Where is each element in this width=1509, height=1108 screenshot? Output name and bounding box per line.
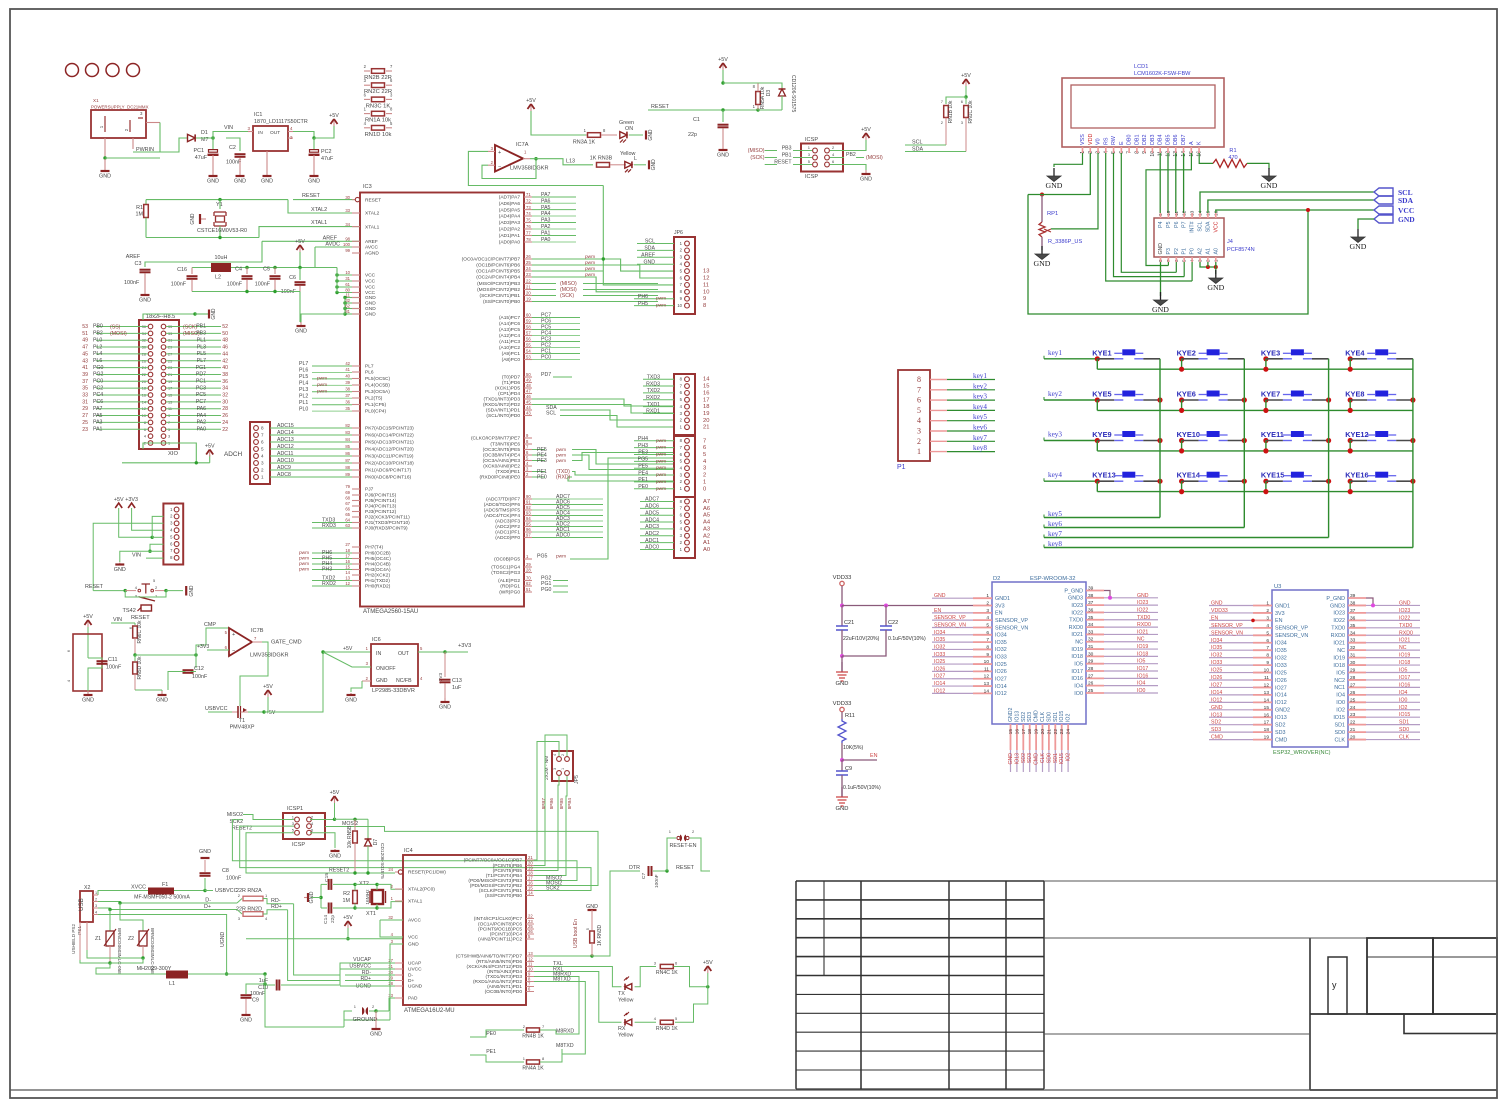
wire RD+ vertical <box>288 910 340 981</box>
svg-text:CLK: CLK <box>1040 752 1046 763</box>
svg-text:IO23: IO23 <box>1399 608 1410 614</box>
connector power header 8pin <box>163 504 183 565</box>
svg-text:10k RN5B: 10k RN5B <box>347 825 353 848</box>
svg-text:A2: A2 <box>703 533 710 539</box>
IC3 pin 84 PK5(ADC13/PCINT21) <box>352 441 360 443</box>
svg-text:key3: key3 <box>1048 431 1062 439</box>
D2 pin 13 IO14 <box>973 685 992 687</box>
IC3 pin 72 (AD6)PA6 <box>524 202 532 204</box>
svg-text:GND: GND <box>207 179 219 185</box>
IC3 pin 63 PJ0(RXD3/PCINT9) <box>352 527 360 529</box>
svg-text:47uF: 47uF <box>321 156 334 162</box>
U3 pin 13 IO14 <box>1253 694 1272 696</box>
svg-text:83: 83 <box>345 430 350 435</box>
svg-text:L13: L13 <box>566 159 575 165</box>
svg-text:40: 40 <box>222 365 228 371</box>
svg-text:IO5: IO5 <box>1399 668 1407 674</box>
IC3 pin 2 (RXD0/PCIN8)PE0 <box>524 476 532 478</box>
svg-text:USBVCC: USBVCC <box>205 706 228 712</box>
U3 pin 3 EN <box>1253 619 1272 621</box>
svg-text:XTAL1: XTAL1 <box>408 899 423 905</box>
svg-text:41: 41 <box>82 365 88 371</box>
wire JPB PE1 <box>634 481 674 483</box>
svg-text:(OC1B/PCINT6)PB6: (OC1B/PCINT6)PB6 <box>476 263 520 269</box>
svg-text:54: 54 <box>526 349 531 354</box>
svg-text:18: 18 <box>1027 729 1033 735</box>
svg-text:51: 51 <box>526 587 531 592</box>
D2 pin 30 IO18 <box>1086 655 1104 657</box>
wire +3V3 to pin 4 <box>132 508 164 530</box>
svg-text:5: 5 <box>1266 630 1269 636</box>
svg-text:27: 27 <box>82 413 88 419</box>
svg-text:89: 89 <box>345 472 350 477</box>
svg-text:8: 8 <box>986 644 989 650</box>
svg-text:Yellow: Yellow <box>618 1033 633 1039</box>
svg-text:CMD: CMD <box>1275 737 1287 743</box>
svg-text:RS: RS <box>1103 137 1109 145</box>
svg-text:NC: NC <box>1399 645 1407 651</box>
svg-text:KYE16: KYE16 <box>1345 471 1368 480</box>
svg-text:GND: GND <box>1152 305 1169 314</box>
svg-text:PB0: PB0 <box>93 324 103 330</box>
svg-text:PB1: PB1 <box>196 324 206 330</box>
svg-text:7: 7 <box>261 433 264 438</box>
svg-text:CMD: CMD <box>1211 735 1223 741</box>
resistor RN5A 10k <box>756 92 761 105</box>
wire KYE10 jog <box>1181 441 1183 451</box>
svg-text:94: 94 <box>526 516 531 521</box>
svg-text:26: 26 <box>222 413 228 419</box>
svg-text:71: 71 <box>526 192 531 197</box>
svg-text:14: 14 <box>703 377 710 383</box>
IC4 pin 7 (AIN0/INT1)PD1 <box>526 986 534 988</box>
wire JPB PG5 <box>634 460 674 462</box>
svg-text:87: 87 <box>345 458 350 463</box>
svg-text:GND: GND <box>1137 593 1149 599</box>
svg-text:IO12: IO12 <box>934 688 945 694</box>
capacitor C22 0.1uF <box>885 606 887 627</box>
svg-text:26: 26 <box>1350 690 1356 696</box>
svg-text:43: 43 <box>526 411 531 416</box>
svg-text:1M: 1M <box>136 212 144 218</box>
IC4 pin 32 AVCC <box>395 919 403 921</box>
svg-text:IO16: IO16 <box>1399 682 1410 688</box>
svg-text:40: 40 <box>345 374 350 379</box>
svg-text:62: 62 <box>345 304 350 309</box>
wires TXD2 RXD2 stubs <box>312 580 352 582</box>
wire XTAL loop bottom <box>146 237 259 239</box>
svg-text:2: 2 <box>261 468 264 473</box>
svg-text:X2: X2 <box>84 885 90 891</box>
filter rail +5V <box>192 267 211 269</box>
IC4 pin 27 UCAP <box>395 962 403 964</box>
wires PH4 PH3 stubs on IC3 left side lower <box>312 552 352 554</box>
IC4 pin 19 (PCINT5)PB5 <box>526 870 534 872</box>
svg-text:100nF: 100nF <box>255 282 271 288</box>
svg-text:PL2: PL2 <box>93 344 102 350</box>
svg-text:CSTCE16M0V53-R0: CSTCE16M0V53-R0 <box>197 228 247 234</box>
svg-text:4: 4 <box>917 416 921 425</box>
push button KYE3 <box>1263 356 1268 361</box>
ground C8 <box>201 857 210 859</box>
svg-text:90: 90 <box>526 494 531 499</box>
wire XIO bottom +5V <box>143 443 196 463</box>
svg-text:+5V: +5V <box>718 57 728 63</box>
svg-text:P7: P7 <box>1182 221 1188 227</box>
svg-text:(XCK1)PD5: (XCK1)PD5 <box>495 386 520 392</box>
U3 pin 29 IO5 <box>1348 672 1366 674</box>
svg-text:A5: A5 <box>703 513 710 519</box>
svg-text:28: 28 <box>526 568 531 573</box>
svg-text:pwm: pwm <box>656 487 666 492</box>
svg-text:PL0: PL0 <box>93 337 102 343</box>
IC3 pin 32 GND <box>352 302 360 304</box>
svg-text:(RXD): (RXD) <box>556 475 571 481</box>
svg-text:XTAL1: XTAL1 <box>311 220 327 226</box>
svg-text:100: 100 <box>343 242 351 247</box>
svg-text:PL3(OC5A): PL3(OC5A) <box>365 389 390 395</box>
svg-text:L1: L1 <box>169 981 175 987</box>
svg-text:73: 73 <box>526 205 531 210</box>
svg-text:PL1: PL1 <box>197 337 206 343</box>
IC3 pin 16 PH4(OC4B) <box>352 563 360 565</box>
IC3 pin 8 (T3/INT6)PE6 <box>524 443 532 445</box>
svg-text:PH1(TXD2): PH1(TXD2) <box>365 578 390 584</box>
svg-text:+5V: +5V <box>861 127 871 133</box>
svg-text:13: 13 <box>984 681 990 687</box>
wires IC4 MISO2 MOSI2 SCK2 <box>534 880 570 882</box>
svg-text:IO22: IO22 <box>1137 607 1148 613</box>
capacitor PC2 47uF <box>313 138 315 150</box>
svg-text:D1: D1 <box>201 130 208 136</box>
IC3 pin 22 (MISO/PCINT3)PB3 <box>524 283 532 285</box>
wire KYE1 jog <box>1096 359 1098 369</box>
svg-text:RD+: RD+ <box>360 976 371 982</box>
svg-text:VDD33: VDD33 <box>833 575 852 581</box>
wire JPA RXD1 <box>643 412 674 414</box>
svg-text:A4: A4 <box>703 520 711 526</box>
wire opamp inputs <box>488 150 495 152</box>
IC3 pin 89 PK0(ADC8/PCINT16) <box>352 476 360 478</box>
svg-text:GND: GND <box>1399 600 1411 606</box>
svg-text:IO17: IO17 <box>1071 669 1083 675</box>
svg-text:PE1: PE1 <box>638 477 648 483</box>
wire KYE12 jog <box>1349 441 1351 451</box>
svg-text:PC5: PC5 <box>196 392 206 398</box>
ground flag <box>1357 229 1359 237</box>
svg-text:A1: A1 <box>1205 248 1211 254</box>
wires J4 SCL SDA VCC to flags <box>1200 192 1374 213</box>
svg-text:RXD2: RXD2 <box>646 395 660 401</box>
svg-text:GND: GND <box>261 179 273 185</box>
push button KYE7 <box>1263 397 1268 402</box>
svg-text:PJ2(XCK3/PCINT11): PJ2(XCK3/PCINT11) <box>365 515 410 521</box>
D2 pin 32 NC <box>1086 641 1104 643</box>
svg-text:IO22: IO22 <box>1333 618 1345 624</box>
svg-text:PL0: PL0 <box>299 406 308 412</box>
U3 pin 32 NC <box>1348 649 1366 651</box>
svg-text:GND: GND <box>365 312 376 318</box>
svg-text:3: 3 <box>95 904 97 908</box>
wire JPA RXD3 <box>643 385 674 387</box>
svg-text:SENSOR_VP: SENSOR_VP <box>1211 623 1243 629</box>
svg-text:P0: P0 <box>1190 248 1196 254</box>
IC3 pin 38 PL3(OC5A) <box>352 391 360 393</box>
push button KYE10 <box>1179 438 1184 443</box>
svg-text:SCL: SCL <box>645 239 655 245</box>
U3 pin 4 SENSOR_VP <box>1253 627 1272 629</box>
svg-text:GND2: GND2 <box>1008 707 1014 722</box>
svg-text:IO14: IO14 <box>1211 690 1222 696</box>
wire XIO left row PL6 <box>96 360 148 362</box>
svg-text:PH7(T4): PH7(T4) <box>365 545 384 551</box>
svg-text:RN1A 10k: RN1A 10k <box>365 118 391 124</box>
IC3 pin 61 VCC <box>352 286 360 288</box>
title block table <box>796 880 1044 882</box>
svg-text:34: 34 <box>1088 622 1094 628</box>
wire KYE14 jog <box>1181 481 1183 491</box>
svg-text:PA7: PA7 <box>93 406 103 412</box>
ground TS42 <box>185 586 187 596</box>
resistor RN1D <box>364 127 370 129</box>
svg-text:19: 19 <box>526 297 531 302</box>
svg-text:PC0: PC0 <box>93 379 103 385</box>
svg-text:IO21: IO21 <box>1137 629 1148 635</box>
svg-text:DB5: DB5 <box>1165 135 1171 146</box>
wires ICSP left <box>765 150 777 152</box>
svg-text:LP2985-33DBVR: LP2985-33DBVR <box>372 688 415 694</box>
svg-text:IO19: IO19 <box>1399 653 1410 659</box>
svg-text:34: 34 <box>1350 630 1356 636</box>
varistor Z2 <box>120 903 143 931</box>
wire XIO left row PA5 <box>96 415 148 417</box>
svg-text:4: 4 <box>95 911 97 915</box>
IC3 pin 29 (TOSC1)PG4 <box>524 566 532 568</box>
svg-text:27: 27 <box>388 958 393 963</box>
svg-text:48: 48 <box>222 338 228 344</box>
svg-text:IO18: IO18 <box>1137 651 1148 657</box>
svg-text:USHIELD PS2: USHIELD PS2 <box>71 924 76 954</box>
push button KYE14 <box>1179 479 1184 484</box>
svg-text:Z1: Z1 <box>95 936 101 942</box>
IC3 pin 80 VCC <box>352 292 360 294</box>
svg-text:D-: D- <box>205 898 211 904</box>
svg-text:35: 35 <box>345 406 350 411</box>
svg-text:18: 18 <box>345 548 350 553</box>
svg-text:IO15: IO15 <box>1059 753 1065 764</box>
IC3 pin 70 (ALE)PG2 <box>524 580 532 582</box>
svg-text:25: 25 <box>82 420 88 426</box>
IC4 pin 26 (PCINT10)PC4 <box>526 933 534 935</box>
svg-text:RN1D 10k: RN1D 10k <box>365 132 392 138</box>
IC3 pin 91 (ADC6/TDO)PF6 <box>524 504 532 506</box>
svg-text:4: 4 <box>553 754 557 756</box>
wire ADCH ADC10 <box>270 462 360 464</box>
svg-text:SCL: SCL <box>546 411 556 417</box>
capacitor C1 22p <box>722 110 724 122</box>
green routing loops icsp1 <box>232 820 577 881</box>
svg-text:(SCL/INT0)PD0: (SCL/INT0)PD0 <box>486 413 520 419</box>
svg-text:IO0: IO0 <box>1336 700 1345 706</box>
svg-text:26: 26 <box>526 254 531 259</box>
wire KYE6 jog <box>1181 400 1183 410</box>
svg-text:C22: C22 <box>888 620 898 626</box>
ground LED L <box>648 160 650 169</box>
svg-text:A: A <box>1189 141 1195 145</box>
svg-text:IC4: IC4 <box>404 848 413 854</box>
svg-text:(SDA/INT1)PD1: (SDA/INT1)PD1 <box>486 408 520 414</box>
svg-text:(SS): (SS) <box>110 324 121 330</box>
svg-text:8: 8 <box>917 375 921 384</box>
wires J4 A2 A1 A0 gnd <box>1200 262 1216 267</box>
svg-text:27: 27 <box>1088 673 1094 679</box>
svg-text:IO19: IO19 <box>1137 644 1148 650</box>
svg-text:26: 26 <box>1088 681 1094 687</box>
svg-text:ON/OFF: ON/OFF <box>376 666 396 672</box>
svg-text:1: 1 <box>1266 601 1269 607</box>
svg-text:CLK: CLK <box>1040 711 1046 722</box>
svg-text:(OC1A/PCINT5)PB5: (OC1A/PCINT5)PB5 <box>476 269 520 275</box>
svg-text:36: 36 <box>1088 607 1094 613</box>
svg-text:SD3: SD3 <box>1027 712 1033 722</box>
ground C9 esp <box>841 787 843 797</box>
svg-text:IO14: IO14 <box>934 681 945 687</box>
D2 pin 5 SENSOR_VN <box>973 626 992 628</box>
D2 pin 16 IO13 <box>1016 724 1018 750</box>
wires USB D- D+ <box>98 902 237 904</box>
wire JPC ADC6 <box>640 507 674 509</box>
svg-text:GND: GND <box>717 153 729 159</box>
svg-text:key1: key1 <box>1048 349 1062 357</box>
svg-text:3: 3 <box>1266 615 1269 621</box>
svg-text:IO34: IO34 <box>1211 638 1222 644</box>
svg-text:PL5(OC5C): PL5(OC5C) <box>365 376 390 382</box>
IC3 pin 43 (SCL/INT0)PD0 <box>524 415 532 417</box>
svg-text:PH3: PH3 <box>322 567 332 573</box>
capacitor C11 100nF <box>87 635 89 658</box>
U3 pin 9 IO33 <box>1253 664 1272 666</box>
svg-text:GND3: GND3 <box>1068 596 1083 602</box>
IC3 pin 3 (TXD0)PE1 <box>524 471 532 473</box>
svg-text:(ALE)PG2: (ALE)PG2 <box>498 578 520 584</box>
svg-text:D-: D- <box>408 973 413 979</box>
svg-text:PH0(RXD2): PH0(RXD2) <box>365 584 391 590</box>
svg-text:38: 38 <box>222 372 228 378</box>
svg-text:PH6(OC2B): PH6(OC2B) <box>365 551 391 557</box>
svg-text:PA4: PA4 <box>197 413 207 419</box>
svg-text:RESET: RESET <box>774 160 792 166</box>
svg-text:37: 37 <box>345 393 350 398</box>
svg-text:key1: key1 <box>973 372 987 380</box>
wire RP1 rail <box>1028 194 1090 196</box>
svg-text:VDD33: VDD33 <box>1211 608 1228 614</box>
svg-text:ADC14: ADC14 <box>277 430 294 436</box>
svg-text:7: 7 <box>1266 645 1269 651</box>
wire LCD VDD <box>1089 153 1091 195</box>
IC3 pin 86 PK3(ADC11/PCINT19) <box>352 455 360 457</box>
svg-text:VCC: VCC <box>365 285 376 291</box>
wire key row 4 <box>1044 480 1097 482</box>
svg-text:13: 13 <box>528 951 533 956</box>
+5V AVCC <box>297 245 304 250</box>
svg-text:IO26: IO26 <box>995 669 1007 675</box>
svg-text:AVDC: AVDC <box>325 242 340 248</box>
svg-text:RXD0: RXD0 <box>1069 625 1083 631</box>
wire key6 row <box>1044 527 1244 529</box>
svg-text:KYE9: KYE9 <box>1092 430 1111 439</box>
wire JP6 PH5 <box>634 305 674 307</box>
svg-text:CD1206-S01575: CD1206-S01575 <box>379 843 385 879</box>
wire flag GND <box>1358 219 1374 229</box>
push button KYE11 <box>1263 438 1268 443</box>
wire AREF <box>262 240 360 242</box>
svg-text:7: 7 <box>986 637 989 643</box>
svg-text:17: 17 <box>1264 720 1270 726</box>
svg-text:(OC3C/INT5)PE5: (OC3C/INT5)PE5 <box>483 447 521 453</box>
svg-text:PC7: PC7 <box>196 399 206 405</box>
svg-text:KYE14: KYE14 <box>1177 471 1201 480</box>
svg-text:LCD1: LCD1 <box>1134 64 1148 70</box>
svg-text:KYE2: KYE2 <box>1177 348 1196 357</box>
svg-text:PE3: PE3 <box>537 458 547 464</box>
wire ADCH ADC14 <box>270 434 360 436</box>
svg-text:10: 10 <box>345 270 350 275</box>
svg-text:IO23: IO23 <box>1071 603 1083 609</box>
IC4 pin 16 (PDI/MOSI/PCINT2)PB2 <box>526 885 534 887</box>
svg-text:38: 38 <box>1350 600 1356 606</box>
svg-text:IO25: IO25 <box>995 662 1007 668</box>
capacitor C9 esp 0.1uF <box>841 760 843 771</box>
svg-text:LMV358IDGKR: LMV358IDGKR <box>250 653 289 659</box>
svg-text:PL7: PL7 <box>197 358 206 364</box>
svg-text:(AIN2/PCINT11)PC2: (AIN2/PCINT11)PC2 <box>478 937 522 943</box>
svg-text:20: 20 <box>1040 729 1046 735</box>
IC3 pin 14 PH2(XCK2) <box>352 574 360 576</box>
svg-text:66: 66 <box>345 507 350 512</box>
IC3 pin 21 (MOSI/PCINT2)PB2 <box>524 289 532 291</box>
svg-text:2: 2 <box>986 601 989 607</box>
wire VIN node <box>196 137 213 139</box>
wire JPB PH4 <box>634 440 674 442</box>
+5V T1 <box>265 690 272 695</box>
svg-text:GND: GND <box>365 301 376 307</box>
svg-text:(RXD0/PCIN8)PE0: (RXD0/PCIN8)PE0 <box>479 475 520 481</box>
svg-text:PA3: PA3 <box>541 218 551 224</box>
svg-text:key7: key7 <box>1048 530 1062 538</box>
push button KYE12 <box>1348 438 1353 443</box>
svg-text:PK2(ADC10/PCINT18): PK2(ADC10/PCINT18) <box>365 461 414 467</box>
svg-text:RXD0: RXD0 <box>1399 630 1413 636</box>
svg-text:AVCC: AVCC <box>365 245 379 251</box>
wire KYE5 jog <box>1096 400 1098 410</box>
svg-text:ADC11: ADC11 <box>277 451 293 457</box>
IC3 pin 34 XTAL1 <box>352 226 360 228</box>
IC3 pin 44 (SDA/INT1)PD1 <box>524 409 532 411</box>
wire 3V3 long <box>842 605 973 607</box>
diode D1 M7 <box>188 134 196 141</box>
svg-text:+5V: +5V <box>266 710 276 716</box>
svg-text:(OC0B)PG5: (OC0B)PG5 <box>494 557 520 563</box>
svg-text:RN3C 1K: RN3C 1K <box>366 103 391 109</box>
svg-text:2: 2 <box>703 473 706 479</box>
connector test block <box>73 634 102 691</box>
U3 pin 39 P_GND <box>1348 597 1366 599</box>
IC3 pin 19 (SS/PCINT0)PB0 <box>524 301 532 303</box>
connector header JPC analog <box>674 497 695 558</box>
svg-text:77: 77 <box>526 231 531 236</box>
svg-text:(CLKO/ICP3/INT7)PE7: (CLKO/ICP3/INT7)PE7 <box>471 436 520 442</box>
labels PB3 PB2 PB1 MISO MOSI SCK <box>532 283 556 285</box>
